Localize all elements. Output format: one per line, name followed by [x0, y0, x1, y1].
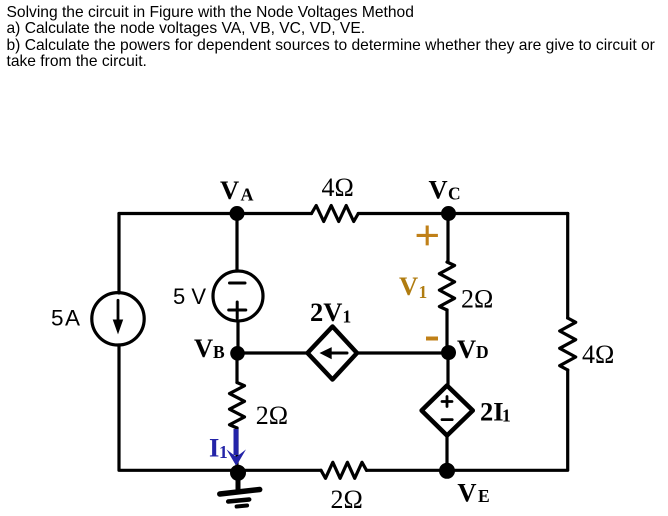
svg-text:1: 1 — [343, 307, 352, 327]
node VC dot — [441, 206, 456, 221]
node VE dot — [439, 463, 455, 479]
wire VA to top 4ohm resistor — [237, 212, 312, 215]
svg-text:2Ω: 2Ω — [331, 485, 363, 514]
wire VE to bottom 2ohm resistor — [367, 469, 448, 472]
svg-text:4Ω: 4Ω — [322, 173, 354, 202]
svg-text:2Ω: 2Ω — [256, 401, 288, 430]
wire left rail upper — [117, 214, 120, 294]
5V source plus sign — [229, 302, 246, 318]
current I1 blue arrow head — [227, 449, 247, 466]
svg-text:1: 1 — [502, 406, 511, 426]
current I1 blue arrow shaft — [234, 429, 239, 455]
ground stem — [236, 479, 241, 489]
resistor R-right 4ohm zigzag — [560, 318, 576, 370]
svg-text:2Ω: 2Ω — [461, 285, 493, 314]
wire VC to top-right corner — [449, 212, 568, 215]
node VA dot — [230, 206, 245, 221]
wire right rail lower to bottom-right corner — [447, 370, 568, 470]
resistor R-top 4ohm zigzag — [312, 206, 359, 222]
dependent source 2V1 diamond — [308, 327, 358, 380]
svg-text:A: A — [241, 185, 254, 205]
resistor R-V1 2ohm zigzag — [439, 262, 454, 310]
wire top resistor to VC — [358, 212, 448, 215]
svg-text:5 V: 5 V — [173, 284, 206, 309]
dependent source 2V1 arrow tail — [332, 352, 348, 355]
wire bottom resistor to ground node — [238, 469, 321, 472]
node VD dot — [441, 345, 456, 360]
wire VB to 2V1 diamond — [237, 351, 308, 354]
dependent source 2I1 diamond — [422, 386, 473, 436]
wire VC down to V1 resistor — [446, 214, 449, 263]
ground bar 1 — [220, 490, 260, 495]
polarity plus orange at VC — [417, 226, 438, 246]
wire 2V1 diamond to VD — [357, 351, 449, 354]
resistor R-bottom 2ohm zigzag — [321, 462, 366, 478]
svg-text:B: B — [213, 342, 225, 362]
wire VA down to 5V source — [235, 214, 238, 272]
svg-text:1: 1 — [219, 442, 228, 462]
polarity minus orange at VD — [426, 337, 438, 341]
svg-text:2V: 2V — [310, 297, 342, 327]
wire 2I1 diamond to VE — [445, 436, 448, 471]
current source 5A circle — [92, 293, 144, 345]
wire right rail upper — [566, 214, 569, 319]
current source 5A arrow shaft — [117, 300, 120, 321]
svg-text:V: V — [429, 175, 448, 205]
svg-text:V: V — [194, 333, 213, 363]
wire top rail left: corner to VA — [119, 212, 237, 215]
5V source minus sign — [230, 282, 246, 285]
2I1 minus sign — [442, 418, 452, 421]
svg-text:V: V — [399, 271, 418, 301]
voltage source 5V circle — [213, 271, 263, 321]
ground bar 2 — [228, 500, 249, 502]
node VB dot — [230, 346, 245, 361]
wire ground node to bottom-left corner — [119, 345, 238, 470]
wire VB resistor to ground node — [235, 428, 238, 470]
2I1 plus sign — [442, 397, 452, 407]
svg-text:E: E — [478, 486, 490, 506]
resistor R-VB 2ohm zigzag — [230, 383, 245, 428]
wire 5V source to VB — [236, 321, 239, 353]
svg-text:C: C — [448, 184, 461, 204]
svg-text:5A: 5A — [51, 306, 82, 331]
svg-text:4Ω: 4Ω — [582, 340, 614, 369]
current source 5A arrow head — [113, 320, 124, 335]
dependent source 2V1 arrow head — [320, 347, 332, 359]
svg-text:I: I — [209, 433, 219, 463]
svg-text:V: V — [457, 334, 476, 364]
wire VD down to 2I1 diamond — [446, 353, 449, 386]
ground bar 3 — [237, 506, 248, 507]
svg-text:V: V — [457, 478, 476, 508]
svg-text:2I: 2I — [480, 396, 504, 426]
svg-text:D: D — [476, 342, 489, 362]
svg-text:1: 1 — [419, 282, 428, 302]
wire V1 resistor to VD — [445, 310, 448, 353]
node ground dot — [230, 465, 246, 481]
wire VB down to 2ohm resistor — [235, 353, 238, 383]
svg-text:V: V — [220, 175, 239, 205]
